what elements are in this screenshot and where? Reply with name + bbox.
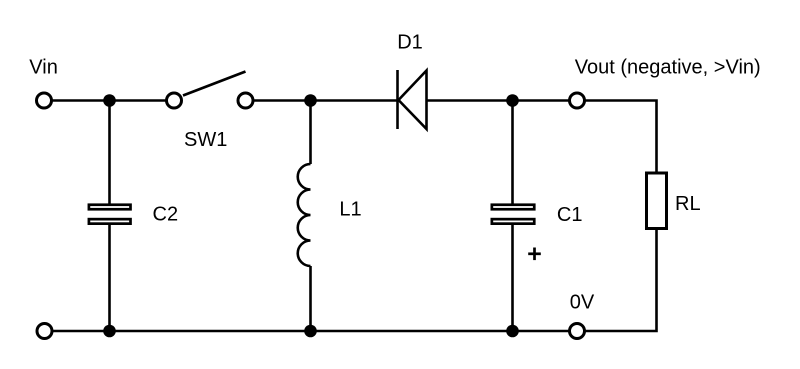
capacitor C1 bottom plate bbox=[492, 219, 534, 224]
terminal bottom left bbox=[37, 324, 52, 339]
terminal 0V bbox=[570, 324, 585, 339]
inductor L1 coil bbox=[298, 164, 311, 266]
wire C1 bottom lead bbox=[511, 225, 514, 332]
svg-text:L1: L1 bbox=[339, 199, 361, 221]
node A (Vin/C2 junction top) bbox=[103, 94, 116, 107]
node E (L1 junction bottom) bbox=[304, 325, 317, 338]
svg-text:0V: 0V bbox=[570, 291, 595, 313]
svg-text:Vout (negative, >Vin): Vout (negative, >Vin) bbox=[575, 56, 761, 78]
label plus polarity C1 bbox=[528, 248, 541, 261]
wire L1 top lead bbox=[309, 101, 312, 165]
terminal Vin bbox=[37, 93, 52, 108]
wire diode anode to node C bbox=[427, 99, 513, 102]
svg-text:SW1: SW1 bbox=[184, 129, 227, 151]
wire switch right to node B bbox=[246, 99, 311, 102]
switch SW1 right contact circle bbox=[238, 93, 253, 108]
svg-text:RL: RL bbox=[675, 193, 701, 215]
node C (diode/C1/Vout junction top) bbox=[506, 94, 519, 107]
capacitor C1 top plate bbox=[492, 205, 534, 210]
node F (C1 junction bottom) bbox=[506, 325, 519, 338]
wire node C to Vout terminal and corner bbox=[513, 101, 657, 172]
node B (switch/L1/diode junction top) bbox=[304, 94, 317, 107]
svg-text:Vin: Vin bbox=[29, 57, 58, 79]
svg-text:C1: C1 bbox=[557, 204, 583, 226]
wire C1 top lead bbox=[511, 101, 514, 205]
capacitor C2 top plate bbox=[89, 205, 131, 210]
node D (C2 junction bottom) bbox=[103, 325, 116, 338]
svg-text:C2: C2 bbox=[153, 204, 179, 226]
switch SW1 blade bbox=[183, 72, 246, 96]
wire top rail left (Vin terminal to switch) bbox=[44, 99, 174, 102]
wire C2 branch bbox=[108, 101, 111, 205]
diode D1 cathode bar bbox=[396, 70, 399, 129]
svg-text:D1: D1 bbox=[397, 32, 423, 54]
wire C2 bottom lead bbox=[108, 225, 111, 332]
diode D1 triangle bbox=[399, 71, 427, 130]
switch SW1 left contact circle bbox=[167, 93, 182, 108]
capacitor C2 bottom plate bbox=[89, 219, 131, 224]
wire L1 bottom lead bbox=[309, 266, 312, 331]
wire bottom rail bbox=[45, 230, 657, 331]
terminal Vout bbox=[570, 93, 585, 108]
wire node B to diode cathode bbox=[311, 99, 398, 102]
resistor RL body bbox=[647, 173, 667, 229]
